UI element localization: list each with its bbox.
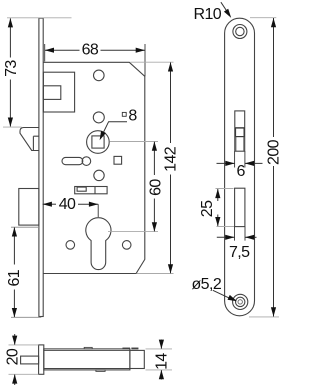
dimension 73 xyxy=(9,18,11,126)
dimension 73 extension lines xyxy=(7,17,72,19)
deadbolt cutout xyxy=(235,188,245,226)
faceplate edge (side view) xyxy=(39,18,43,316)
dimension 7,5 extension lines xyxy=(234,227,236,241)
bottom screw hole inner xyxy=(238,300,242,304)
svg-text:142: 142 xyxy=(162,146,179,172)
bottom view: faceplate bar xyxy=(39,345,44,374)
bottom view: top tab 2 xyxy=(123,347,130,350)
bottom view: case body xyxy=(44,349,130,370)
euro cylinder hole xyxy=(86,218,111,270)
strike plate outline xyxy=(225,18,255,316)
bottom view: bottom notch xyxy=(96,370,105,372)
dimension 60 xyxy=(153,142,155,232)
label 8 leader xyxy=(101,122,127,137)
dimension 68 xyxy=(45,49,145,51)
svg-text:61: 61 xyxy=(6,269,23,286)
latch housing xyxy=(43,72,74,112)
svg-text:20: 20 xyxy=(5,348,22,365)
fixing strip xyxy=(75,187,107,194)
dimension 40 extension to cylinder centre xyxy=(97,204,99,217)
cylinder left screw hole xyxy=(66,241,75,250)
svg-text:73: 73 xyxy=(3,60,20,77)
label 8 (square symbol) xyxy=(122,112,126,116)
bottom view: case end cap xyxy=(130,350,144,368)
label ø5,2 leader xyxy=(213,290,234,300)
svg-text:200: 200 xyxy=(266,139,283,165)
svg-text:6: 6 xyxy=(236,163,245,180)
bottom view: top tab 1 xyxy=(84,347,92,349)
dimension 61 extension lines xyxy=(11,226,39,228)
svg-text:40: 40 xyxy=(59,196,76,213)
small square hole xyxy=(114,156,122,164)
dimension 14 xyxy=(160,340,162,349)
middle hole xyxy=(93,112,104,123)
bottom screw hole middle xyxy=(236,297,245,306)
svg-text:25: 25 xyxy=(199,200,216,217)
dimension 200 xyxy=(273,18,275,317)
bottom screw hole outer xyxy=(233,294,248,309)
dimension 142 xyxy=(170,63,172,274)
dimension 6 xyxy=(217,162,235,164)
lock case outline xyxy=(43,62,145,273)
dimension 14 extension lines xyxy=(146,348,173,350)
latch housing inner block xyxy=(43,86,60,100)
dimension 200 extension lines xyxy=(250,17,276,19)
dimension 6 extension lines xyxy=(234,151,236,167)
svg-text:7,5: 7,5 xyxy=(229,244,250,261)
dimension 7,5 xyxy=(217,236,235,238)
dimension 68 extension lines xyxy=(44,44,46,62)
dimension 60 extension lines xyxy=(110,141,159,143)
follower circle xyxy=(87,131,110,154)
top screw hole inner xyxy=(236,27,244,35)
follower square 8mm xyxy=(92,136,104,148)
cylinder right screw hole xyxy=(122,241,131,250)
bottom view: top tab 3 xyxy=(132,347,138,350)
dimension 61 xyxy=(13,228,15,318)
bottom view: latch tip xyxy=(21,356,39,364)
dimension 25 extension lines xyxy=(216,188,234,190)
hole below follower xyxy=(94,170,104,180)
label R10 leader xyxy=(221,2,229,14)
latch cutout xyxy=(235,111,245,151)
dimension 40 xyxy=(43,203,99,205)
dimension 142 extension lines xyxy=(131,61,174,63)
svg-text:8: 8 xyxy=(128,107,137,124)
svg-text:60: 60 xyxy=(147,179,164,196)
dimension 20 extension lines xyxy=(9,344,39,346)
dimension 20 xyxy=(14,334,16,345)
slotted hole xyxy=(62,157,83,164)
svg-text:68: 68 xyxy=(82,41,99,58)
top hole xyxy=(94,70,105,81)
latch bolt (protruding) xyxy=(20,128,39,151)
deadbolt (protruding) xyxy=(19,189,39,226)
svg-text:R10: R10 xyxy=(194,6,222,23)
svg-text:14: 14 xyxy=(153,353,170,370)
top screw hole outer xyxy=(233,25,247,39)
dimension 25 xyxy=(217,189,219,201)
svg-text:ø5,2: ø5,2 xyxy=(192,276,222,293)
